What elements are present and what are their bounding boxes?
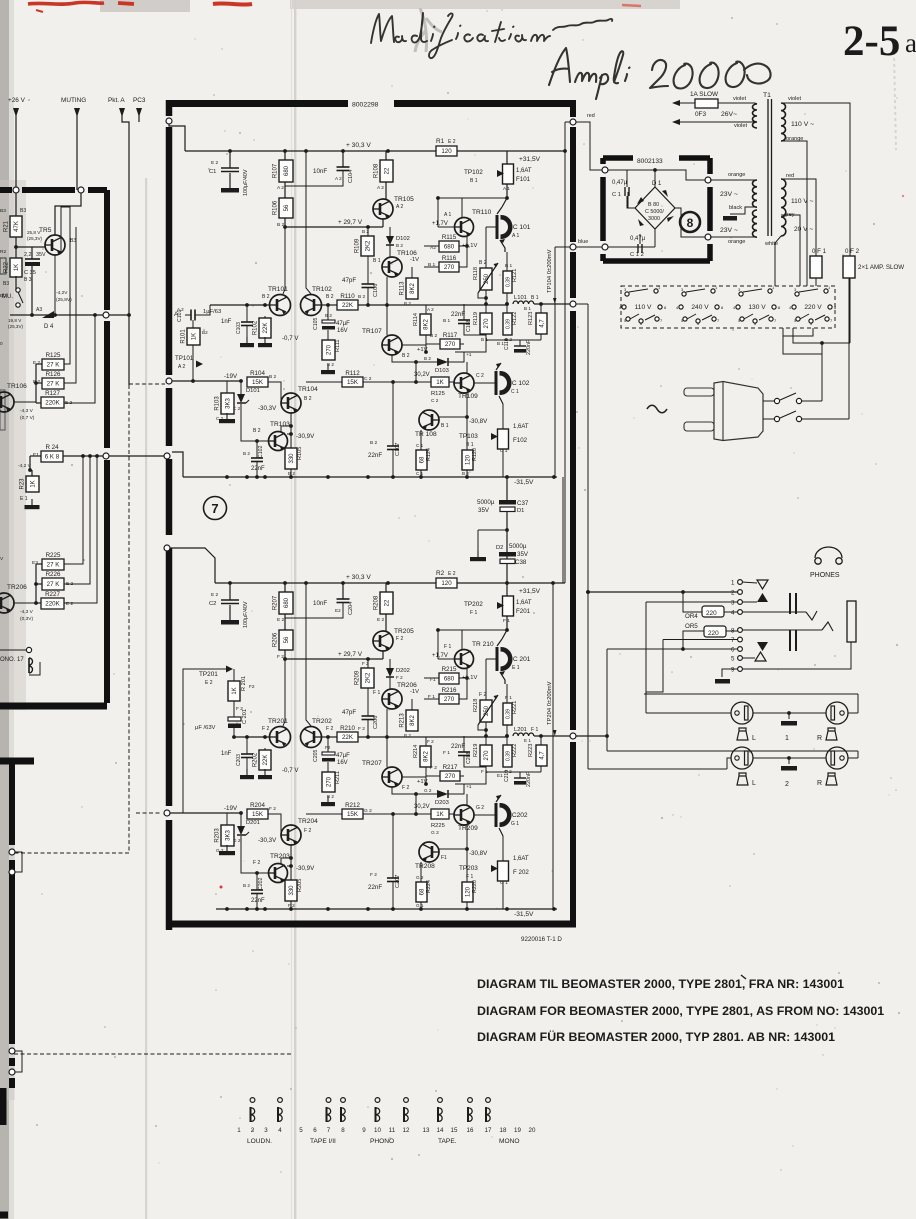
svg-text:22nF: 22nF (451, 311, 465, 318)
wire base rail (210, 304, 270, 306)
wire -31.5V rail (216, 908, 557, 910)
svg-text:DIAGRAM FÜR BEOMASTER 2000, TY: DIAGRAM FÜR BEOMASTER 2000, TYP 2801. AB… (477, 1029, 835, 1044)
svg-text:22K: 22K (263, 755, 269, 766)
resistor R21 47K (10, 216, 22, 237)
wire bridge to right terminals (675, 208, 705, 237)
svg-text:F 202: F 202 (513, 869, 529, 876)
svg-text:TP104 0±200mV: TP104 0±200mV (547, 249, 553, 293)
svg-text:TR5: TR5 (39, 227, 52, 234)
ground under R103 (226, 414, 228, 419)
svg-text:22nF: 22nF (451, 743, 465, 750)
svg-text:R222: R222 (512, 744, 518, 757)
svg-text:R214: R214 (413, 745, 419, 758)
top edge gray blotches (100, 0, 190, 12)
wire white tap down (775, 236, 781, 286)
wire fuse 0F1 into selector (815, 278, 817, 286)
resistor R108 22 (385, 151, 387, 160)
svg-text:R116: R116 (442, 255, 457, 262)
wire output node (506, 725, 508, 736)
wire R115 R116 junctions (424, 677, 439, 679)
wire C201 to base rail (233, 728, 235, 737)
resistor R113 8K2 (411, 267, 413, 278)
svg-text:-30,8V: -30,8V (469, 850, 488, 857)
wire -31.5V rail (183, 476, 557, 478)
vertical crease left (145, 178, 147, 1219)
wire TR107 emitter to +1V node (402, 767, 426, 777)
svg-text:G 2: G 2 (424, 788, 432, 793)
wire TR103 collector jog (281, 426, 291, 432)
wire inner -31.5 link (562, 477, 564, 583)
svg-text:56: 56 (284, 636, 290, 643)
pin3 triangle solid up (757, 593, 768, 602)
main border bottom (166, 921, 576, 928)
wire TR110 collector (462, 197, 507, 199)
svg-text:110 V ~: 110 V ~ (791, 198, 814, 205)
svg-text:0: 0 (0, 341, 3, 346)
svg-text:-4,2 V: -4,2 V (18, 463, 32, 469)
svg-text:R124: R124 (426, 448, 432, 461)
bridge rectifier D1 B80C5000/3000 (608, 170, 705, 180)
svg-text:PHONO: PHONO (370, 1138, 394, 1145)
svg-text:10nF: 10nF (313, 600, 327, 607)
svg-text:TAPE.: TAPE. (438, 1138, 457, 1145)
svg-text:35V: 35V (478, 507, 490, 514)
svg-text:A 2: A 2 (427, 307, 434, 312)
wire R21-R22 node to TR5 base (15, 193, 17, 216)
wires R125-R127 left bus (36, 363, 42, 365)
transistor TR205 (385, 614, 387, 631)
svg-text:5000µ: 5000µ (477, 499, 495, 506)
inductor L201 (505, 734, 509, 738)
left edge scan shadow (0, 0, 9, 1219)
svg-text:G 2: G 2 (364, 808, 372, 814)
svg-text:B 2: B 2 (253, 428, 261, 434)
svg-text:220K: 220K (45, 601, 60, 608)
svg-text:7: 7 (731, 637, 735, 644)
driver IC201 (496, 647, 499, 671)
transistor TR207 (382, 767, 402, 787)
feed arrow PktA (119, 108, 125, 117)
svg-text:B 1: B 1 (373, 258, 381, 264)
svg-text:+1,7V: +1,7V (432, 653, 448, 659)
svg-text:330: 330 (289, 885, 295, 896)
svg-text:C110: C110 (504, 338, 510, 350)
wire TR107 emitter to +1V node (402, 335, 426, 345)
svg-text:µF /63V: µF /63V (195, 725, 216, 731)
variable resistor R118 250 (485, 252, 487, 268)
svg-text:B 1: B 1 (497, 341, 504, 346)
wire input column (192, 345, 194, 381)
ground under R102 (264, 337, 266, 343)
resistor R122 0.39 (506, 304, 508, 313)
resistor R125 1K (431, 377, 449, 387)
test point TP102 (497, 170, 504, 177)
svg-text:270: 270 (327, 776, 333, 787)
wire base TR110 from R115 (438, 658, 455, 660)
capacitor C102 22nF (256, 441, 258, 458)
svg-text:R 201: R 201 (241, 676, 247, 691)
wire -19V feed (166, 378, 172, 384)
svg-text:R1: R1 (436, 138, 445, 145)
svg-text:9220016 T-1 D: 9220016 T-1 D (521, 936, 562, 943)
svg-text:R208: R208 (374, 595, 380, 610)
resistor R205 330 (285, 880, 297, 901)
output terminal (570, 301, 576, 307)
svg-text:L101: L101 (514, 295, 527, 301)
wire input to +30.3V rail (170, 548, 215, 583)
test point TP104 mark (553, 298, 557, 304)
svg-text:a: a (905, 28, 916, 58)
svg-text:14: 14 (437, 1127, 444, 1134)
svg-text:(25,3V): (25,3V) (8, 324, 24, 329)
svg-text:E 2: E 2 (277, 617, 285, 623)
pin1 muting triangle open (742, 582, 757, 583)
wire node A to main block (109, 314, 129, 316)
svg-text:1K: 1K (436, 811, 444, 818)
test point TP101 (196, 361, 203, 368)
resistor R225 27K (left) (42, 559, 64, 570)
svg-text:B 1: B 1 (443, 318, 451, 324)
svg-text:2,2: 2,2 (24, 252, 32, 258)
svg-text:C 2: C 2 (364, 376, 372, 382)
svg-text:20: 20 (529, 1127, 536, 1134)
red editor marks top (28, 2, 104, 4)
wire TR5 collector (55, 193, 81, 235)
svg-text:F 2: F 2 (269, 806, 276, 812)
svg-text:1µF/63: 1µF/63 (203, 309, 221, 315)
resistor R215 680 (439, 673, 459, 684)
feed arrow +26V (13, 108, 19, 117)
svg-text:C103: C103 (236, 322, 242, 334)
left board block border (0, 187, 107, 193)
resistor R121 0.39 (506, 252, 508, 271)
svg-text:C37: C37 (517, 500, 529, 507)
wire pin7 line (663, 639, 738, 641)
svg-text:C106: C106 (373, 284, 379, 297)
svg-text:B 2: B 2 (243, 883, 250, 888)
resistor R210 22K (337, 732, 358, 742)
pin5 triangle open up (742, 657, 755, 659)
svg-text:R206: R206 (273, 632, 279, 647)
ground DIN 2 (788, 758, 790, 764)
jack tip contact lower (742, 629, 822, 631)
svg-text:B 2: B 2 (243, 451, 250, 456)
svg-text:-31,5V: -31,5V (514, 479, 534, 486)
AC symbol (647, 405, 667, 413)
transistor TR203 (269, 864, 288, 883)
svg-text:C 1 2: C 1 2 (630, 252, 644, 258)
resistor R208 22 (385, 583, 387, 592)
svg-text:MONO: MONO (499, 1138, 520, 1145)
test point TP103 (491, 433, 498, 440)
svg-text:TR102: TR102 (312, 286, 332, 293)
resistor R114 8K2 (425, 305, 427, 314)
test point TP202 (497, 602, 504, 609)
transistor TR109 (449, 381, 454, 383)
svg-text:PC3: PC3 (133, 97, 146, 104)
svg-text:R: R (817, 780, 822, 787)
svg-text:R217: R217 (443, 764, 458, 771)
svg-text:+ 30,3 V: + 30,3 V (346, 574, 371, 581)
main board 8002298 border top (166, 100, 576, 107)
svg-text:R112: R112 (345, 370, 360, 377)
svg-text:R125: R125 (431, 391, 445, 397)
svg-text:C104: C104 (348, 170, 354, 183)
svg-text:R106: R106 (273, 200, 279, 215)
wire output2 terminal to speakers (576, 735, 607, 737)
svg-text:330: 330 (289, 453, 295, 464)
resistor R125 27K (left) (42, 359, 64, 370)
svg-text:TP101: TP101 (175, 355, 194, 362)
svg-text:IC 102: IC 102 (510, 380, 530, 387)
svg-text:(0,7 V): (0,7 V) (20, 415, 35, 421)
svg-text:3: 3 (264, 1127, 268, 1134)
resistor R106 56 (284, 182, 286, 198)
diode D101 zener (240, 381, 242, 394)
svg-text:violet: violet (733, 96, 747, 102)
svg-text:R104: R104 (250, 370, 265, 377)
svg-text:R114: R114 (413, 313, 419, 326)
transistor TR106 (389, 245, 391, 257)
wire TR106 TR107 column (386, 709, 388, 737)
wire inner vertical blue feed (555, 246, 570, 248)
diode D103 (426, 361, 437, 363)
svg-text:D1: D1 (517, 508, 524, 514)
svg-text:A 1: A 1 (444, 212, 451, 218)
svg-text:R218: R218 (473, 699, 479, 712)
winding 23V secondary (753, 180, 758, 207)
svg-text:-19V: -19V (224, 373, 238, 380)
svg-text:C202: C202 (258, 877, 264, 890)
svg-text:100µF/40V: 100µF/40V (243, 601, 249, 628)
svg-text:TR103: TR103 (270, 421, 290, 428)
svg-text:B 2: B 2 (430, 333, 438, 339)
capacitor C110 220nF (540, 334, 542, 340)
wire TR106 TR107 column (386, 277, 388, 305)
wire R118 wiper (478, 725, 486, 736)
svg-text:F102: F102 (513, 437, 528, 444)
svg-text:220K: 220K (45, 400, 60, 407)
svg-text:F 2: F 2 (253, 860, 260, 866)
svg-text:220: 220 (708, 630, 719, 637)
svg-text:8K2: 8K2 (424, 751, 430, 762)
svg-text:D201: D201 (246, 820, 260, 826)
svg-text:C107: C107 (395, 443, 401, 456)
dashed wire to main border y813 (136, 812, 160, 814)
resistor R209 2K2 (367, 659, 369, 668)
svg-text:220 V: 220 V (804, 304, 822, 311)
svg-text:(25,3V): (25,3V) (27, 236, 43, 241)
svg-text:TR204: TR204 (298, 818, 318, 825)
svg-text:E 1: E 1 (20, 496, 28, 502)
svg-text:E 2: E 2 (448, 139, 456, 145)
svg-text:B 1: B 1 (531, 295, 539, 301)
svg-text:+31,5V: +31,5V (519, 156, 541, 163)
svg-text:23V ~: 23V ~ (720, 227, 738, 234)
test point TP204 mark (553, 730, 557, 736)
svg-text:R127: R127 (45, 390, 60, 397)
svg-text:F 2: F 2 (370, 872, 377, 878)
svg-text:B 2: B 2 (479, 260, 487, 266)
wire TR108 links (439, 848, 467, 850)
wire C35 (31, 247, 33, 259)
svg-text:TP202: TP202 (464, 601, 483, 608)
wire top channel -31.5 to C37 (172, 452, 183, 477)
svg-text:B 2: B 2 (304, 396, 312, 402)
resistor R222 0.39 (506, 736, 508, 745)
svg-text:5000µ: 5000µ (509, 543, 527, 550)
svg-text:+ 29,7 V: + 29,7 V (338, 219, 363, 226)
svg-text:10nF: 10nF (313, 168, 327, 175)
resistor R115 680 (439, 241, 459, 252)
svg-text:B 1: B 1 (441, 423, 449, 429)
svg-text:120: 120 (441, 580, 452, 587)
svg-text:2: 2 (785, 781, 789, 788)
terminal on left block top (13, 187, 19, 193)
svg-text:+ 30,3 V: + 30,3 V (346, 142, 371, 149)
arrow feed lower (680, 121, 755, 123)
wire TR109 collector up (466, 794, 468, 805)
svg-text:C102: C102 (258, 445, 264, 458)
svg-text:C 2: C 2 (431, 398, 439, 404)
DIN connector 2 R (826, 747, 848, 769)
svg-text:18: 18 (500, 1127, 507, 1134)
wire D101 to TR103 base (241, 404, 268, 441)
svg-text:680: 680 (444, 676, 455, 683)
transistor TR204 (281, 825, 301, 845)
svg-text:blue: blue (578, 239, 588, 245)
svg-text:-1V: -1V (410, 257, 419, 263)
wire base rail (234, 736, 270, 738)
svg-text:0 F 1: 0 F 1 (812, 248, 827, 255)
wire grey tap down (781, 215, 800, 286)
svg-text:F101: F101 (516, 176, 531, 183)
svg-text:10: 10 (374, 1127, 381, 1134)
svg-text:1K: 1K (14, 264, 20, 271)
transistor TR107 (382, 335, 402, 355)
handwritten note Modification (371, 13, 612, 58)
svg-text:G 1: G 1 (500, 880, 508, 886)
svg-text:B 2: B 2 (396, 243, 403, 248)
voltage selector dashed box (621, 286, 835, 328)
svg-text:270: 270 (445, 341, 456, 348)
svg-text:+1: +1 (466, 784, 472, 790)
svg-text:270: 270 (327, 344, 333, 355)
svg-text:F 2: F 2 (262, 726, 269, 732)
svg-text:C207: C207 (395, 875, 401, 888)
svg-text:R122: R122 (512, 312, 518, 325)
svg-text:+ 29,7 V: + 29,7 V (338, 651, 363, 658)
svg-text:15K: 15K (347, 379, 359, 386)
svg-text:1: 1 (785, 735, 789, 742)
svg-text:R210: R210 (340, 725, 355, 732)
svg-text:DIAGRAM TIL BEOMASTER 2000, TY: DIAGRAM TIL BEOMASTER 2000, TYPE 2801, F… (477, 977, 844, 991)
svg-text:1K: 1K (436, 379, 444, 386)
svg-text:TR208: TR208 (415, 863, 435, 870)
svg-text:1,6AT: 1,6AT (516, 168, 532, 174)
svg-text:8: 8 (687, 216, 694, 230)
svg-text:9: 9 (362, 1127, 366, 1134)
svg-text:R105: R105 (297, 447, 303, 460)
svg-text:C 1: C 1 (612, 192, 621, 198)
svg-text:PHONES: PHONES (810, 572, 840, 579)
svg-text:2: 2 (251, 1127, 255, 1134)
svg-text:G 1: G 1 (511, 821, 519, 827)
svg-text:B3: B3 (70, 238, 76, 244)
svg-text:E 2: E 2 (205, 680, 213, 686)
wire +26V down (15, 115, 17, 188)
svg-text:+1,7V: +1,7V (432, 221, 448, 227)
svg-text:R220: R220 (472, 880, 478, 893)
ground under R111 (327, 364, 329, 370)
svg-text:3: 3 (731, 600, 735, 607)
svg-text:TP201: TP201 (199, 671, 218, 678)
svg-text:0,39: 0,39 (505, 709, 511, 719)
resistor R207 680 (284, 583, 286, 592)
svg-text:R115: R115 (442, 234, 457, 241)
svg-text:B 1: B 1 (505, 263, 513, 269)
svg-text:6 K 8: 6 K 8 (45, 454, 60, 461)
svg-text:B 2: B 2 (358, 294, 366, 300)
svg-text:TR207: TR207 (362, 760, 382, 767)
svg-text:4: 4 (731, 610, 735, 617)
transistor TR101 (270, 295, 291, 316)
svg-text:TR105: TR105 (394, 196, 414, 203)
svg-text:B 3: B 3 (24, 277, 32, 283)
svg-text:1,6AT: 1,6AT (516, 600, 532, 606)
wire feed pin2 (588, 591, 738, 593)
svg-text:R101: R101 (181, 329, 187, 344)
svg-text:R213: R213 (400, 713, 406, 728)
svg-text:B 2: B 2 (269, 374, 277, 380)
svg-text:D202: D202 (396, 668, 410, 674)
svg-text:2-5: 2-5 (843, 18, 900, 65)
svg-text:8002133: 8002133 (637, 158, 663, 165)
svg-text:1K: 1K (192, 333, 198, 340)
main border right (570, 100, 576, 921)
svg-text:OR5: OR5 (685, 623, 698, 630)
resistor R105 330 (285, 448, 297, 469)
svg-text:F 1: F 1 (444, 644, 451, 650)
svg-text:B2: B2 (202, 330, 208, 335)
wire red tap to fuse 0F1 (781, 179, 816, 256)
svg-text:4,7: 4,7 (540, 319, 546, 328)
svg-text:220nF: 220nF (526, 339, 532, 355)
svg-text:22nF: 22nF (251, 466, 265, 472)
svg-text:C 1: C 1 (416, 471, 424, 476)
fuse F101 1.6AT (506, 151, 508, 164)
svg-text:T1: T1 (763, 92, 771, 99)
wire +31.5 node (505, 581, 509, 585)
svg-text:-30,9V: -30,9V (296, 865, 315, 872)
winding primary 110V lower (781, 179, 786, 236)
wire TR5 emitter to node (54, 255, 56, 315)
svg-text:C108: C108 (466, 319, 472, 332)
svg-text:47µF: 47µF (336, 753, 350, 759)
capacitor C207 22nF (392, 814, 394, 878)
speaker icon 2L (737, 773, 748, 785)
svg-text:F2: F2 (249, 684, 255, 690)
wire TR110 collector (462, 629, 507, 631)
transistor TR103 (269, 432, 288, 451)
svg-text:+1V: +1V (417, 779, 428, 785)
svg-text:TR107: TR107 (362, 328, 382, 335)
svg-text:680: 680 (284, 165, 290, 176)
svg-text:F 2: F 2 (427, 739, 434, 744)
svg-text:0,39: 0,39 (505, 277, 511, 287)
svg-text:red: red (786, 173, 794, 179)
capacitor C202 22nF (256, 873, 258, 890)
